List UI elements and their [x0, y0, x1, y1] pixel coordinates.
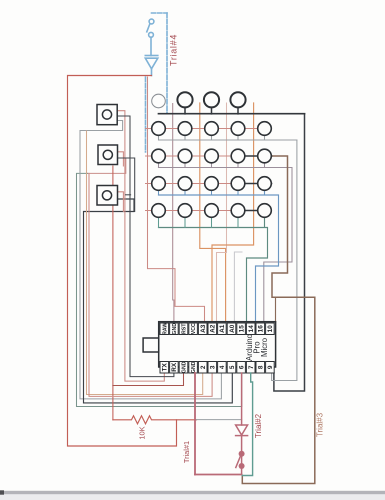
- svg-text:RX: RX: [171, 362, 178, 372]
- svg-text:16: 16: [258, 325, 265, 333]
- svg-text:GND: GND: [191, 361, 197, 373]
- svg-text:10K: 10K: [138, 426, 147, 439]
- svg-text:Trial#4: Trial#4: [169, 34, 179, 66]
- svg-text:RST: RST: [182, 323, 188, 334]
- svg-text:2: 2: [200, 365, 207, 369]
- svg-text:Micro: Micro: [260, 337, 269, 357]
- svg-text:5: 5: [229, 365, 236, 369]
- svg-text:Trial#2: Trial#2: [254, 413, 263, 438]
- svg-text:A1: A1: [219, 324, 226, 333]
- svg-text:7: 7: [248, 365, 255, 369]
- svg-text:9: 9: [267, 365, 274, 369]
- svg-text:8: 8: [258, 365, 265, 369]
- svg-text:GND: GND: [182, 361, 188, 373]
- svg-text:6: 6: [238, 365, 245, 369]
- svg-text:3: 3: [210, 365, 217, 369]
- svg-text:15: 15: [238, 325, 245, 333]
- svg-text:Trial#3: Trial#3: [316, 412, 325, 437]
- svg-text:Trial#1: Trial#1: [182, 441, 191, 463]
- svg-text:GND: GND: [172, 323, 178, 335]
- svg-text:10: 10: [267, 325, 274, 333]
- svg-text:A0: A0: [229, 324, 236, 333]
- svg-text:TX: TX: [161, 362, 168, 371]
- svg-text:A3: A3: [200, 324, 207, 333]
- svg-text:14: 14: [248, 325, 255, 333]
- svg-text:A2: A2: [210, 324, 217, 333]
- svg-text:RAW: RAW: [162, 323, 168, 335]
- svg-text:4: 4: [219, 365, 226, 369]
- svg-text:VCC: VCC: [191, 323, 197, 334]
